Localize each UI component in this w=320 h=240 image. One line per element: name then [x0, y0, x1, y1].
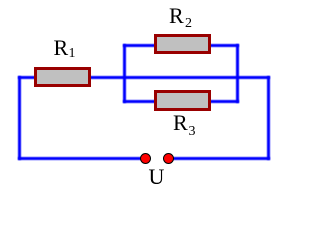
- resistor R3: [154, 90, 211, 111]
- wire: parallel branch right vertical: [236, 44, 239, 103]
- label R1: [54, 37, 69, 59]
- wire: right vertical side: [267, 76, 271, 160]
- wire: parallel branch left vertical: [123, 44, 127, 104]
- resistor R2: [154, 34, 211, 54]
- resistor R1: [34, 67, 91, 87]
- wire: R3 branch horizontal: [123, 100, 240, 103]
- wire: R2 branch horizontal: [123, 44, 240, 47]
- wire: bottom horizontal right segment: [172, 157, 270, 160]
- wire: left vertical side: [18, 76, 21, 160]
- wire: top horizontal main (through R1 and middle node): [18, 76, 270, 79]
- label U: [149, 166, 165, 188]
- wire: bottom horizontal left segment: [18, 157, 142, 160]
- label R3: [173, 112, 188, 134]
- terminal dot left: [140, 153, 151, 164]
- terminal dot right: [163, 153, 174, 164]
- label R2: [169, 5, 184, 27]
